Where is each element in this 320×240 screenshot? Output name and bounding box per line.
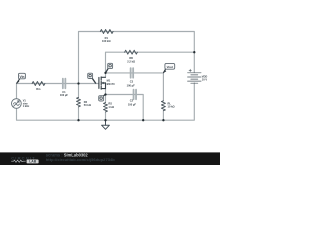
svg-text:100 µF: 100 µF: [127, 83, 136, 87]
voltage source V1 sine: [12, 99, 22, 109]
wire source to C2 corner: [106, 89, 144, 121]
label VDD: [202, 75, 208, 82]
svg-text:C2: C2: [130, 99, 134, 103]
label R2: [84, 100, 91, 107]
svg-text:LAB: LAB: [29, 160, 37, 164]
battery VDD: [188, 73, 202, 83]
wire RL leads: [162, 111, 164, 121]
svg-text:2.2 kΩ: 2.2 kΩ: [127, 59, 135, 63]
svg-text:BS170: BS170: [107, 82, 115, 86]
junction node gate: [77, 82, 79, 84]
logo CircuitLab: [11, 155, 38, 163]
resistor Rin horizontal: [32, 82, 45, 86]
probe icon gate: [88, 73, 96, 83]
wire R2 leads: [78, 84, 80, 121]
resistor RS 1k vertical: [104, 103, 108, 112]
svg-text:1 kHz: 1 kHz: [23, 105, 30, 108]
wire top rail gate to VDD: [79, 32, 195, 84]
svg-text:10 V: 10 V: [202, 77, 208, 81]
flag Vout: [163, 63, 174, 73]
junction node drain: [104, 72, 106, 74]
junction node RL bottom: [162, 119, 164, 121]
svg-text:C1: C1: [62, 90, 66, 94]
junction node C2 bottom: [142, 119, 144, 121]
label V1: [23, 100, 30, 109]
junction node source: [104, 93, 106, 95]
junction node ground: [104, 119, 106, 121]
footer bar: [0, 152, 220, 165]
resistor RD 2.2k horizontal: [125, 50, 138, 54]
label M1: [107, 79, 115, 86]
junction node RD-VDD: [193, 51, 195, 53]
resistor RL 10k vertical: [161, 101, 165, 111]
wire RD rail drain to VDD: [106, 52, 195, 77]
svg-text:100 µF: 100 µF: [128, 102, 137, 106]
svg-text:100 µF: 100 µF: [60, 93, 69, 97]
resistor R2 50k vertical: [77, 97, 81, 106]
label RL: [168, 101, 175, 108]
probe icon source: [99, 94, 106, 101]
wire ground rail bottom: [17, 83, 195, 120]
label RD: [127, 56, 135, 63]
junction node R2 bottom: [77, 119, 79, 121]
label C1: [60, 90, 69, 97]
svg-text:Vout: Vout: [167, 65, 173, 69]
label RS: [108, 102, 114, 109]
svg-text:Vin: Vin: [20, 75, 25, 79]
ground: [102, 120, 110, 129]
capacitor C2 100uF plates: [134, 90, 137, 100]
transistor M1 BS170 nmos: [99, 77, 106, 89]
svg-text:50 kΩ: 50 kΩ: [84, 103, 91, 107]
resistor R1 100k horizontal: [100, 30, 113, 34]
svg-text:R1: R1: [105, 36, 109, 40]
wire drain to Vout node: [106, 73, 164, 101]
label R1: [102, 36, 111, 43]
wire RS leads: [105, 112, 107, 120]
capacitor C1 100uF plates: [63, 79, 66, 89]
svg-text:10 kΩ: 10 kΩ: [168, 105, 175, 109]
svg-text:RD: RD: [129, 56, 133, 60]
probe icon drain: [106, 63, 113, 72]
label C2: [128, 99, 137, 107]
capacitor C3 100uF plates: [131, 68, 134, 78]
wire input run Vin to gate: [17, 83, 99, 85]
label C3: [127, 79, 136, 87]
svg-text:100 kΩ: 100 kΩ: [102, 39, 111, 43]
svg-text:1 kΩ: 1 kΩ: [108, 105, 114, 109]
svg-text:C3: C3: [130, 79, 134, 83]
svg-text:http://circuitlab.com/c/j56dup: http://circuitlab.com/c/j56dup2734b: [46, 157, 116, 162]
svg-text:Rin: Rin: [36, 87, 41, 91]
flag Vin: [17, 73, 26, 83]
